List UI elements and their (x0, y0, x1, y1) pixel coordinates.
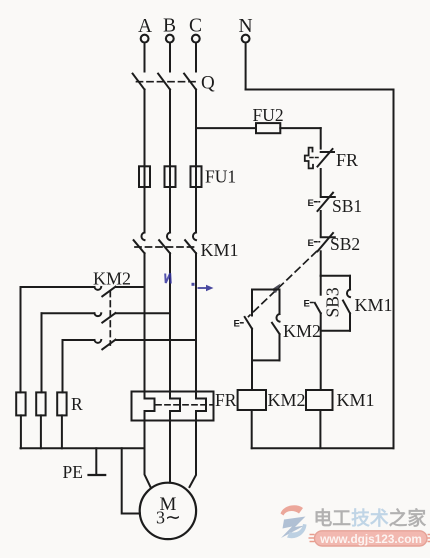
svg-text:电工技术之家: 电工技术之家 (314, 507, 427, 529)
wire bus to motor frame (122, 448, 140, 513)
wire resistor 1 to bus (20, 415, 22, 448)
thermal relay FR NC contact (305, 148, 334, 169)
svg-text:KM2: KM2 (283, 321, 321, 341)
terminal A (138, 16, 152, 42)
svg-text:C: C (189, 16, 202, 37)
left bus horizontal (21, 447, 145, 449)
wire FU1 to KM1 phase 2 (169, 187, 171, 232)
wire bridge to KM2 coil (251, 360, 253, 390)
fuse FU1 element 1 (139, 166, 150, 187)
wire KM2 row1 down to resistor 1 (20, 287, 22, 392)
svg-text:KM1: KM1 (355, 295, 393, 315)
linkage arrowhead (272, 284, 281, 294)
FR heater element 2 (170, 399, 180, 412)
wire N terminal down (245, 43, 247, 90)
svg-text:Q: Q (201, 73, 215, 94)
terminal N (239, 16, 253, 42)
switch Q linkage dashed (137, 81, 199, 83)
wire KM1 to FR phase 2 (169, 253, 171, 398)
pushbutton SB3 NO (304, 276, 321, 314)
wire phase C to FU2 (196, 127, 256, 129)
wire FR to motor phase 3 (190, 411, 197, 487)
pushbutton SB2 NC (308, 233, 335, 251)
bottom bus control (252, 447, 394, 449)
wire SB3 to KM1 coil (320, 313, 322, 390)
wire resistor 3 to bus (61, 415, 63, 448)
wire KM2 row3 down to resistor 3 (62, 340, 64, 392)
contactor KM1 main contact 3 (185, 233, 196, 254)
KM2 branch top bridge (252, 289, 280, 291)
wire KM2 coil to bottom bus (251, 410, 253, 448)
wire node to KM1 aux branch (321, 275, 350, 277)
svg-text:KM1: KM1 (337, 390, 375, 410)
wire FU2 to FR contact (320, 128, 322, 149)
svg-text:KM1: KM1 (201, 240, 239, 260)
svg-text:E: E (308, 238, 314, 249)
contactor KM2 main contact 3 (63, 340, 197, 350)
svg-text:E: E (304, 299, 310, 310)
wire KM1 coil to bottom bus (319, 410, 321, 448)
svg-text:PE: PE (63, 462, 83, 482)
svg-text:E: E (234, 319, 240, 330)
FR heater linkage dashed (156, 404, 213, 406)
wire Q to FU1 phase 1 (144, 90, 146, 167)
svg-text:B: B (163, 16, 176, 37)
wire FR to motor phase 1 (145, 411, 151, 487)
resistor R element 1 (16, 392, 25, 415)
pushbutton SB2-NO linked contact (234, 290, 253, 361)
resistor R element 2 (36, 392, 45, 415)
blue watermark dot (192, 283, 195, 286)
svg-text:SB2: SB2 (330, 234, 360, 254)
resistor R element 3 (57, 392, 66, 415)
wire Q to FU1 phase 3 (195, 90, 197, 167)
wire KM2 row2 down to resistor 2 (41, 313, 43, 392)
wire resistor 2 to bus (40, 415, 42, 448)
wire FU1 to KM1 phase 3 (195, 187, 197, 232)
wire FR to motor phase 2 (169, 411, 171, 483)
svg-text:R: R (71, 394, 83, 414)
wire C terminal to Q (195, 43, 197, 72)
motor M circle (140, 483, 196, 539)
svg-text:FU2: FU2 (253, 105, 284, 125)
wire N rail right vertical (393, 90, 395, 449)
FR heater element 1 (145, 399, 155, 412)
thermal relay FR heater block outline (132, 392, 214, 421)
FR heater element 3 (196, 399, 206, 412)
contactor KM1 main contact 2 (159, 233, 170, 254)
contactor KM1 aux contact (321, 276, 350, 331)
KM2 main linkage dashed vertical (109, 291, 111, 345)
svg-text:SB1: SB1 (332, 196, 362, 216)
pushbutton SB1 NC (308, 193, 335, 211)
watermark banner (309, 531, 430, 546)
fuse FU1 element 3 (191, 166, 202, 187)
svg-text:3∼: 3∼ (156, 508, 181, 529)
wire FU1 to KM1 phase 1 (144, 187, 146, 232)
contactor KM2 main contact 2 (42, 313, 171, 323)
KM2 branch bottom bridge (252, 359, 280, 361)
switch Q pole 1 blade (133, 74, 145, 90)
switch Q pole 2 blade (158, 74, 170, 90)
fuse FU1 element 2 (165, 166, 176, 187)
svg-text:SB3: SB3 (323, 287, 343, 317)
svg-text:FR: FR (336, 150, 358, 170)
svg-text:www.dgjs123.com: www.dgjs123.com (319, 532, 422, 546)
watermark text (314, 507, 427, 529)
wire FR to SB1 (320, 169, 322, 195)
wire KM1 to FR phase 1 (144, 253, 146, 398)
svg-text:KM2: KM2 (268, 390, 306, 410)
switch Q pole 3 blade (184, 74, 196, 90)
blue watermark arrow (198, 285, 214, 291)
blue watermark squiggle (165, 273, 171, 283)
KM1 main linkage dashed (135, 246, 198, 248)
contactor KM2 main contact 1 (21, 287, 145, 297)
wire N rail horizontal (246, 89, 394, 91)
label M 3~ (156, 494, 181, 529)
svg-text:E: E (308, 198, 314, 209)
coil KM1 (306, 390, 333, 410)
wire SB2 to node (320, 251, 322, 275)
contactor KM1 main contact 1 (134, 233, 145, 254)
watermark logo (281, 505, 307, 538)
svg-text:FU1: FU1 (205, 167, 236, 187)
coil KM2 (238, 390, 266, 410)
terminal C (189, 16, 202, 43)
ground PE symbol (89, 448, 106, 475)
wire Q to FU1 phase 2 (169, 90, 171, 167)
wire KM1 to FR phase 3 (195, 253, 197, 398)
svg-text:FR: FR (215, 390, 237, 410)
terminal B (163, 16, 176, 43)
wire B terminal to Q (169, 43, 171, 72)
SB2 linkage dashed diagonal (249, 252, 317, 317)
svg-text:KM2: KM2 (93, 269, 131, 289)
fuse FU2 (256, 123, 321, 133)
wire A terminal to Q (144, 43, 146, 72)
contactor KM2 aux contact (272, 290, 280, 361)
wire SB1 to SB2 (320, 211, 322, 236)
